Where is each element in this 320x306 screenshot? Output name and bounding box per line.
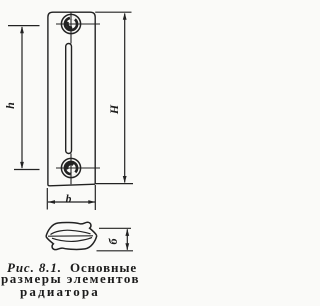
dimension h (left): [8, 26, 40, 170]
v arrow left: [48, 200, 55, 204]
radiator body rectangle: [48, 12, 95, 184]
H extension line bottom: [95, 183, 133, 185]
H extension line top: [95, 11, 131, 13]
H arrow down: [123, 176, 127, 183]
caption line 1b: [70, 261, 137, 274]
wire centerline bottom: [56, 154, 100, 185]
nipple circle bottom: [61, 158, 80, 177]
section center line: [48, 235, 93, 237]
dimension H (right): [95, 12, 133, 183]
h arrow down: [20, 162, 24, 169]
section inner bottom line: [52, 237, 92, 241]
h extension line top: [8, 25, 40, 27]
section outer top line: [46, 222, 97, 236]
section outer bottom line: [46, 236, 97, 250]
slot capsule: [66, 44, 72, 154]
svg-text:b: b: [66, 193, 72, 205]
svg-text:H: H: [107, 104, 121, 115]
b extension line top: [99, 227, 131, 229]
v dimension line: [48, 201, 95, 203]
caption line 1a: [7, 261, 62, 274]
v extension line left: [46, 188, 48, 210]
h dimension line: [21, 27, 23, 168]
svg-text:h: h: [3, 102, 17, 109]
b arrow down: [125, 243, 129, 250]
H arrow up: [123, 13, 127, 20]
svg-text:б: б: [106, 238, 120, 245]
b arrow up: [125, 229, 129, 236]
nipple circle top: [61, 14, 80, 33]
h arrow up: [20, 26, 24, 33]
b dimension line: [126, 229, 128, 250]
caption line 2: [1, 272, 140, 285]
radiator body bottom edge: [48, 184, 95, 186]
section inner top line: [51, 230, 91, 234]
caption line 3: [20, 285, 100, 298]
v arrow right: [88, 200, 95, 204]
h extension line bottom: [14, 169, 40, 171]
H dimension line: [124, 14, 126, 183]
dimension b (section depth, right): [97, 228, 134, 251]
b extension line bottom: [97, 250, 134, 252]
dimension v (bottom width): [47, 185, 95, 210]
radiator drawing: [0, 0, 138, 306]
v extension line right: [94, 185, 96, 210]
wire centerline top: [56, 12, 100, 43]
section profile (cross-section of column): [46, 222, 97, 250]
